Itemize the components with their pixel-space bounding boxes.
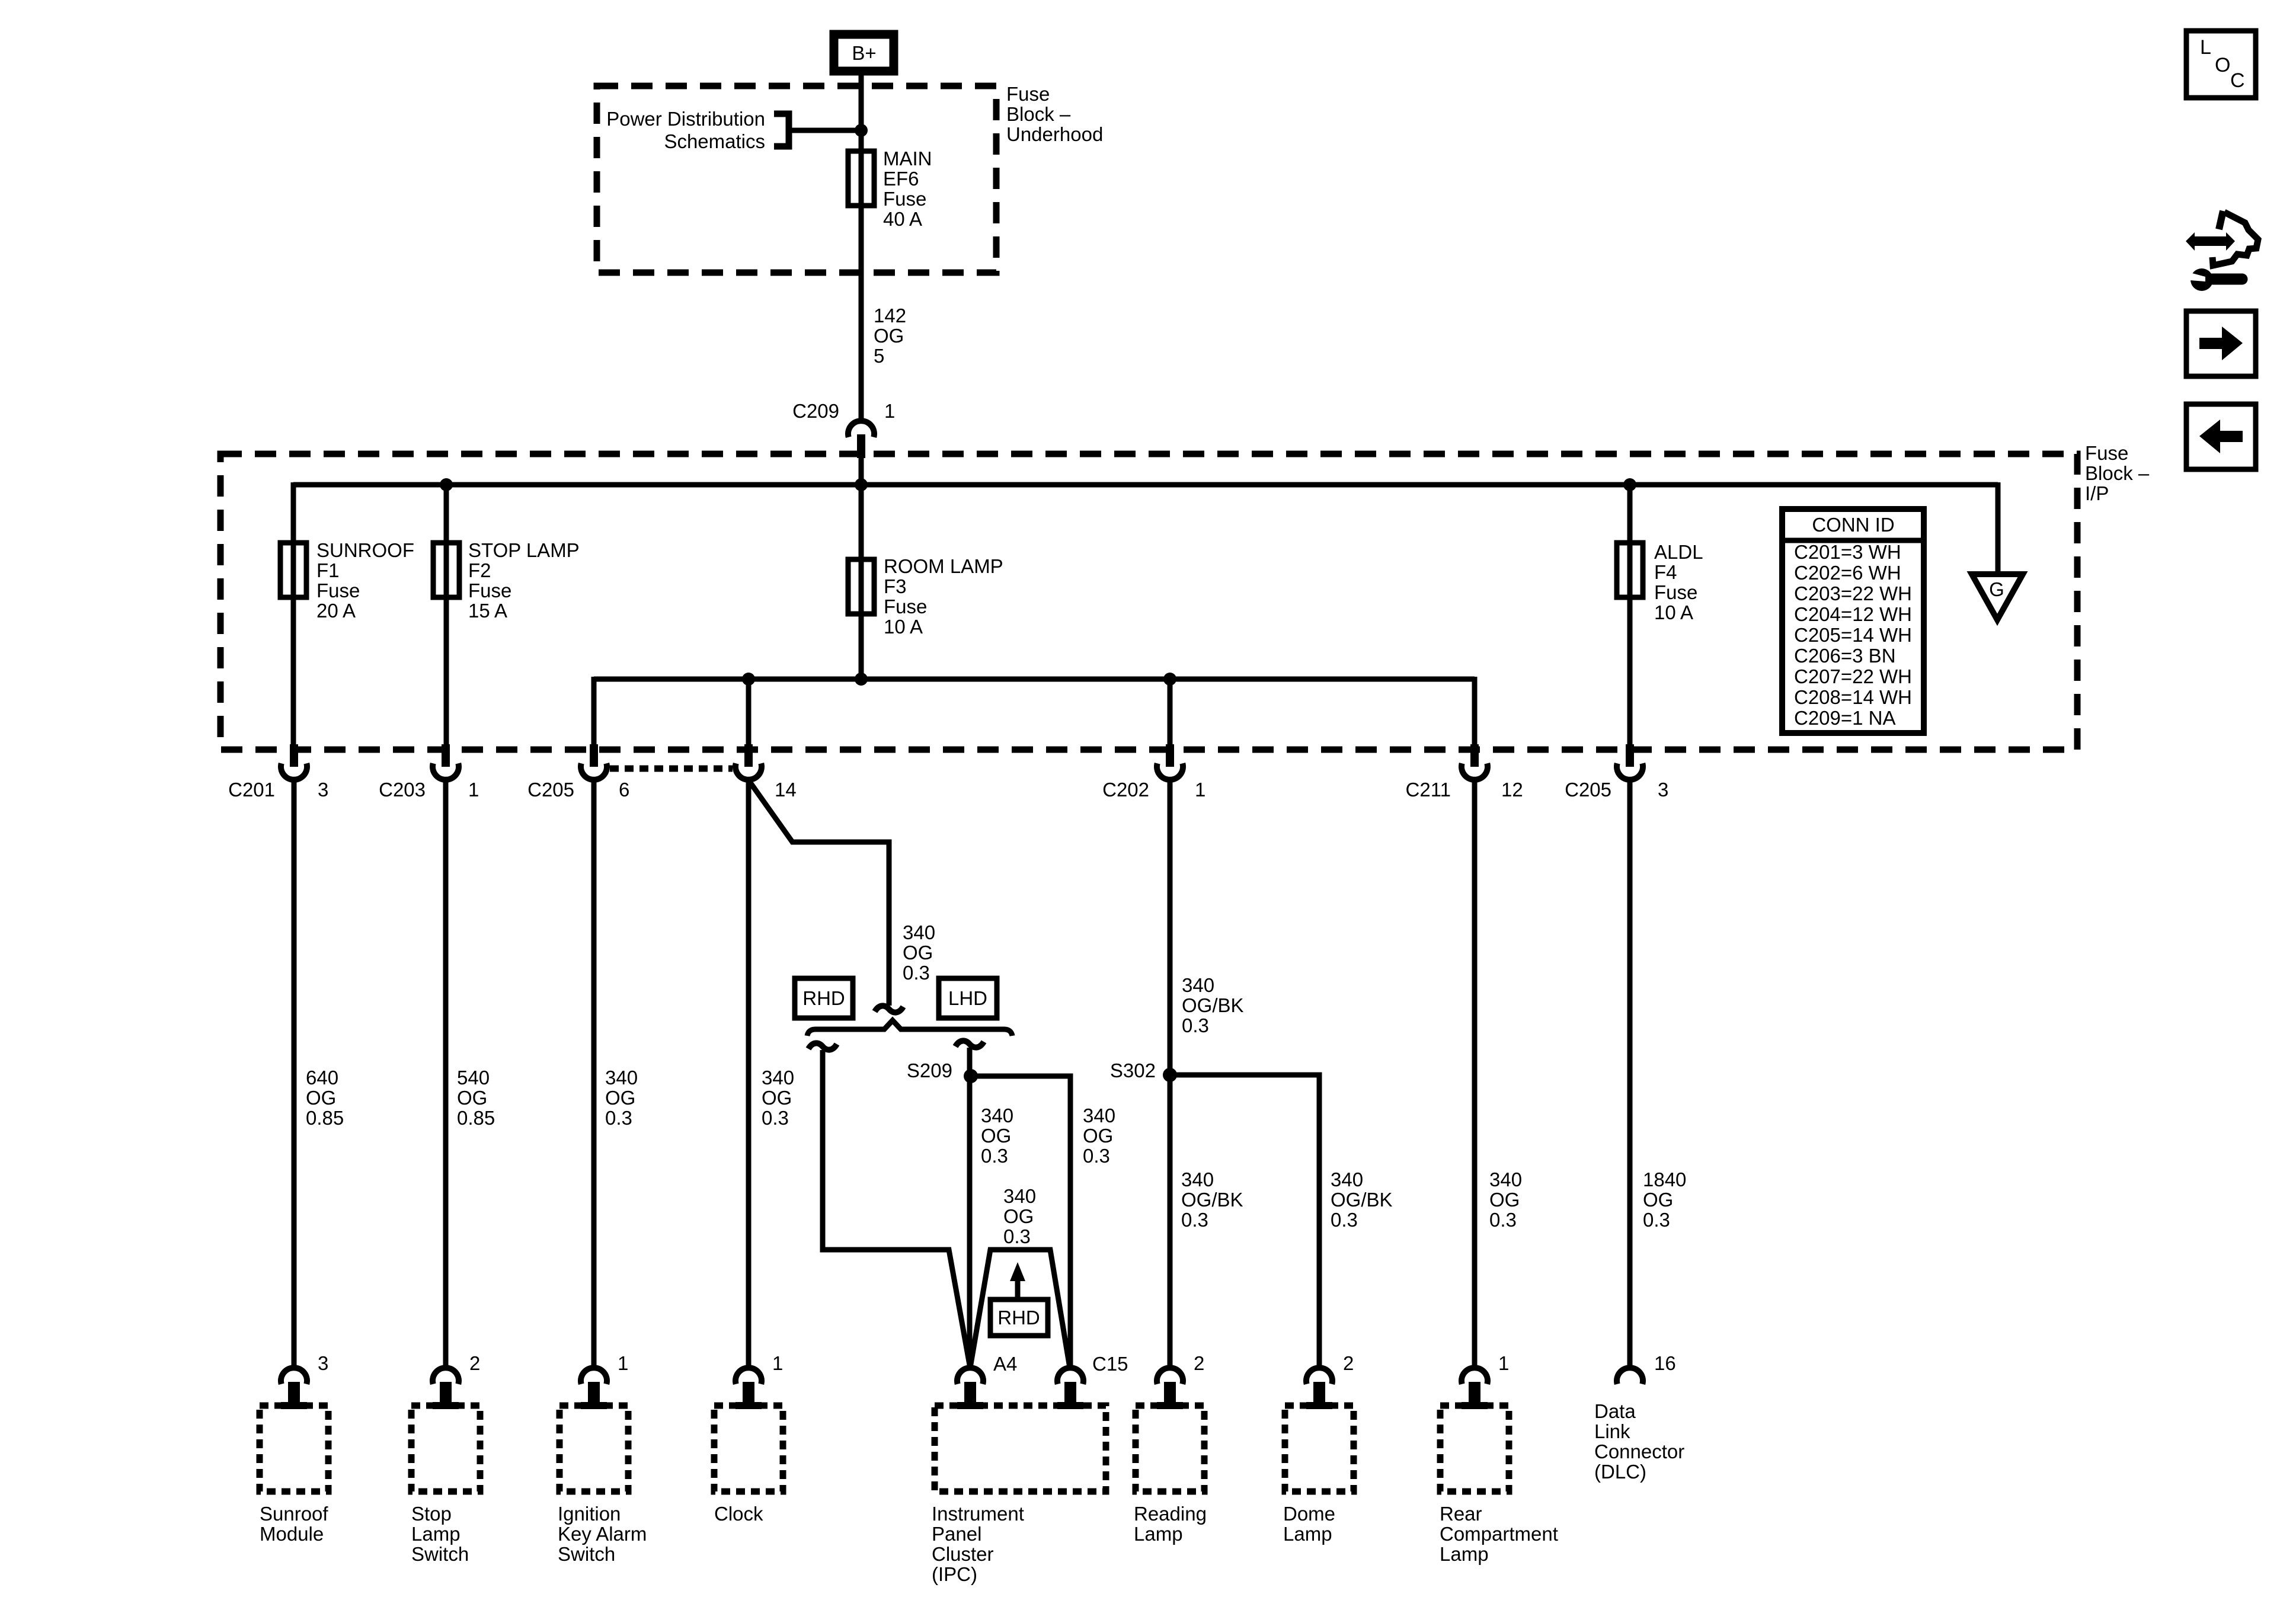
svg-text:OG: OG	[903, 942, 933, 964]
svg-text:0.3: 0.3	[981, 1145, 1008, 1167]
label MAIN EF6 Fuse 40 A	[883, 148, 932, 230]
wire bus2 to C211 pin 12	[1472, 677, 1478, 748]
label ALDL F4 Fuse 10 A	[1654, 541, 1703, 623]
svg-text:0.3: 0.3	[1003, 1225, 1031, 1247]
svg-text:S209: S209	[907, 1060, 952, 1081]
fuse block I/P dashed box	[220, 454, 2077, 750]
svg-text:OG: OG	[457, 1087, 487, 1109]
label 340 OG 0.3 (rear)	[1489, 1169, 1522, 1231]
connector C203 pin 1	[433, 744, 459, 780]
svg-text:STOP LAMP: STOP LAMP	[468, 539, 580, 561]
svg-text:Power Distribution: Power Distribution	[606, 108, 765, 130]
svg-text:C202=6 WH: C202=6 WH	[1794, 562, 1901, 584]
label 340 OG 0.3 (ignition)	[605, 1067, 638, 1129]
break symbol LHD branch	[955, 1041, 984, 1047]
RHD option box	[795, 978, 853, 1018]
svg-text:0.85: 0.85	[457, 1107, 495, 1129]
junction bus2/pin14	[742, 673, 755, 686]
svg-text:Lamp: Lamp	[411, 1523, 461, 1545]
svg-text:Fuse: Fuse	[316, 580, 360, 601]
svg-text:Underhood: Underhood	[1006, 123, 1103, 145]
svg-text:C208=14 WH: C208=14 WH	[1794, 686, 1912, 708]
reading lamp box	[1136, 1406, 1204, 1491]
svg-text:Panel: Panel	[932, 1523, 981, 1545]
svg-text:340: 340	[605, 1067, 638, 1089]
svg-text:Fuse: Fuse	[1006, 83, 1050, 105]
junction on B+ feed	[855, 124, 868, 137]
svg-text:2: 2	[1343, 1352, 1354, 1374]
option split brace	[807, 1020, 1012, 1036]
wire 1840 OG to DLC	[1627, 780, 1633, 1369]
svg-text:340: 340	[762, 1067, 794, 1089]
connector C205 labels	[527, 779, 629, 801]
connector C209 pin 1	[848, 421, 874, 458]
svg-text:Fuse: Fuse	[468, 580, 511, 601]
svg-text:20 A: 20 A	[316, 600, 356, 622]
svg-text:ROOM LAMP: ROOM LAMP	[884, 555, 1003, 577]
wire bus2 to C205 pin 6	[591, 677, 597, 748]
svg-text:OG/BK: OG/BK	[1182, 994, 1244, 1016]
wire bus to fuse F2	[444, 485, 449, 748]
svg-text:C205=14 WH: C205=14 WH	[1794, 624, 1912, 646]
svg-text:C209: C209	[792, 400, 839, 422]
svg-text:(DLC): (DLC)	[1594, 1461, 1646, 1483]
svg-text:OG: OG	[1643, 1189, 1673, 1211]
svg-text:0.3: 0.3	[605, 1107, 632, 1129]
svg-text:0.3: 0.3	[1331, 1209, 1358, 1231]
svg-text:0.3: 0.3	[1489, 1209, 1517, 1231]
connector IPC pin C15	[1057, 1368, 1083, 1409]
svg-text:1: 1	[1195, 779, 1205, 801]
connector C201 labels	[228, 779, 328, 801]
svg-text:C209=1 NA: C209=1 NA	[1794, 707, 1896, 729]
connector C205 pin 14	[736, 744, 762, 780]
svg-text:340: 340	[1181, 1169, 1214, 1190]
connector C201 pin 3	[281, 744, 307, 780]
svg-text:I/P: I/P	[2085, 482, 2109, 504]
CONN ID table	[1782, 509, 1924, 733]
label Data Link Connector (DLC)	[1594, 1400, 1684, 1483]
svg-text:MAIN: MAIN	[883, 148, 932, 169]
svg-text:Fuse: Fuse	[884, 596, 927, 617]
svg-text:RHD: RHD	[802, 987, 845, 1009]
label Sunroof Module	[260, 1503, 328, 1545]
svg-text:0.3: 0.3	[1181, 1209, 1208, 1231]
svg-text:142: 142	[874, 305, 906, 327]
svg-text:0.3: 0.3	[1083, 1145, 1110, 1167]
wire bus to fuse F3	[859, 485, 864, 679]
svg-text:RHD: RHD	[997, 1307, 1040, 1329]
svg-text:340: 340	[1083, 1105, 1115, 1126]
svg-text:3: 3	[318, 779, 328, 801]
svg-text:B+: B+	[852, 42, 876, 64]
svg-text:C204=12 WH: C204=12 WH	[1794, 603, 1912, 625]
label 340 OG 0.3 (branch)	[903, 921, 935, 984]
power bus inside fuse block I/P	[293, 482, 1998, 488]
svg-text:Reading: Reading	[1134, 1503, 1207, 1525]
svg-text:OG: OG	[762, 1087, 792, 1109]
wire 340 OG to ignition key alarm switch	[591, 780, 597, 1369]
svg-text:340: 340	[903, 921, 935, 943]
sunroof module box	[260, 1406, 328, 1491]
label Reading Lamp	[1134, 1503, 1207, 1545]
label STOP LAMP F2 Fuse 15 A	[468, 539, 580, 622]
junction bus2/F3	[855, 673, 868, 686]
svg-text:0.3: 0.3	[903, 962, 930, 984]
svg-text:SUNROOF: SUNROOF	[316, 539, 414, 561]
wire A4 to C15 link (RHD)	[970, 1250, 1070, 1368]
label 340 OG 0.3 (LHD A4)	[981, 1105, 1013, 1167]
clock box	[714, 1406, 783, 1491]
svg-text:O: O	[2215, 54, 2230, 76]
wire RHD branch to IPC A4	[823, 1050, 970, 1368]
svg-text:Dome: Dome	[1283, 1503, 1335, 1525]
svg-text:CONN ID: CONN ID	[1812, 514, 1894, 536]
svg-text:EF6: EF6	[883, 168, 919, 190]
svg-text:10 A: 10 A	[884, 616, 923, 638]
connector sunroof module pin 3	[281, 1368, 307, 1409]
svg-text:2: 2	[1194, 1352, 1204, 1374]
label Ignition Key Alarm Switch	[558, 1503, 647, 1565]
connector C202 pin 1	[1157, 744, 1183, 780]
svg-text:C206=3 BN: C206=3 BN	[1794, 645, 1896, 667]
label 1840 OG 0.3	[1643, 1169, 1686, 1231]
svg-text:C205: C205	[527, 779, 574, 801]
power distribution schematics reference	[606, 108, 789, 152]
svg-text:C202: C202	[1102, 779, 1149, 801]
wire reference bracket to B+ feed	[789, 128, 861, 133]
wire B+ feed down to C209	[859, 75, 864, 422]
svg-text:Stop: Stop	[411, 1503, 452, 1525]
LOC page marker	[2186, 31, 2256, 98]
svg-text:Sunroof: Sunroof	[260, 1503, 328, 1525]
svg-text:A4: A4	[993, 1353, 1017, 1375]
svg-text:F4: F4	[1654, 561, 1677, 583]
connector IPC pin A4	[957, 1368, 983, 1409]
svg-text:OG: OG	[306, 1087, 336, 1109]
previous page arrow icon	[2186, 404, 2256, 469]
svg-text:1: 1	[884, 400, 895, 422]
wire 640 OG to sunroof module	[292, 780, 297, 1369]
svg-text:L: L	[2200, 36, 2211, 59]
connector C202 labels	[1102, 779, 1205, 801]
wire bus2 to C202 pin 1	[1168, 679, 1173, 748]
svg-text:F3: F3	[884, 575, 907, 597]
svg-text:0.3: 0.3	[762, 1107, 789, 1129]
fuse EF6 MAIN 40A	[848, 151, 874, 206]
svg-text:Lamp: Lamp	[1134, 1523, 1183, 1545]
label Clock	[714, 1503, 763, 1525]
label SUNROOF F1 Fuse 20 A	[316, 539, 414, 622]
svg-text:F1: F1	[316, 559, 340, 581]
svg-text:Data: Data	[1594, 1400, 1636, 1422]
svg-text:F2: F2	[468, 559, 491, 581]
label Stop Lamp Switch	[411, 1503, 469, 1565]
LHD option box	[939, 978, 997, 1018]
distribution bus from room lamp fuse	[594, 677, 1475, 682]
wire 540 OG to stop lamp switch	[443, 780, 449, 1369]
RHD marker box	[990, 1299, 1048, 1336]
svg-text:LHD: LHD	[948, 987, 987, 1009]
svg-text:C15: C15	[1092, 1353, 1128, 1375]
svg-text:Connector: Connector	[1594, 1441, 1684, 1462]
label 340 OG 0.3 (clock)	[762, 1067, 794, 1129]
svg-text:1: 1	[468, 779, 479, 801]
svg-text:S302: S302	[1110, 1060, 1156, 1081]
dome lamp box	[1285, 1406, 1354, 1491]
svg-text:Module: Module	[260, 1523, 324, 1545]
label Instrument Panel Cluster (IPC)	[932, 1503, 1024, 1585]
svg-text:Cluster: Cluster	[932, 1543, 994, 1565]
svg-text:G: G	[1989, 578, 2004, 600]
break symbol on branch wire	[875, 1006, 903, 1012]
svg-text:2: 2	[469, 1352, 480, 1374]
svg-text:C207=22 WH: C207=22 WH	[1794, 665, 1912, 687]
wire C209 into power bus	[859, 456, 864, 485]
wire bus to fuse F1	[291, 482, 296, 748]
fuse F1 SUNROOF 20A	[280, 543, 306, 597]
svg-text:C201: C201	[228, 779, 275, 801]
svg-text:Clock: Clock	[714, 1503, 763, 1525]
label ROOM LAMP F3 Fuse 10 A	[884, 555, 1003, 638]
svg-text:5: 5	[874, 345, 884, 367]
svg-text:14: 14	[775, 779, 797, 801]
svg-text:40 A: 40 A	[883, 208, 922, 230]
label 340 OG 0.3 (C15)	[1083, 1105, 1115, 1167]
stop lamp switch box	[411, 1406, 480, 1491]
label 340 OG/BK 0.3 (reading)	[1181, 1169, 1243, 1231]
break symbol RHD branch	[808, 1043, 837, 1049]
svg-text:1840: 1840	[1643, 1169, 1686, 1190]
splice S302	[1163, 1068, 1177, 1082]
label 640 OG 0.85	[306, 1067, 344, 1129]
svg-text:OG: OG	[1489, 1189, 1520, 1211]
svg-text:Switch: Switch	[411, 1543, 469, 1565]
junction bus/F3 feed	[855, 478, 868, 491]
connector C211 pin 12	[1462, 744, 1488, 780]
svg-text:340: 340	[1489, 1169, 1522, 1190]
svg-text:OG: OG	[1003, 1205, 1034, 1227]
instrument panel cluster box	[935, 1406, 1106, 1491]
junction bus/F2	[440, 478, 453, 491]
svg-text:0.85: 0.85	[306, 1107, 344, 1129]
battery positive B+ box	[834, 34, 894, 71]
wire bus to ground	[1996, 482, 2001, 576]
wire bus to fuse F4	[1627, 485, 1633, 748]
svg-text:Block –: Block –	[2085, 462, 2150, 484]
svg-text:Fuse: Fuse	[883, 188, 926, 210]
connector DLC pin 16	[1617, 1368, 1643, 1384]
svg-text:Compartment: Compartment	[1440, 1523, 1558, 1545]
wire 340 OG/BK C202 to S302	[1168, 780, 1173, 1369]
svg-text:OG: OG	[605, 1087, 635, 1109]
wire 340 OG to clock	[746, 780, 752, 1369]
svg-text:1: 1	[1498, 1352, 1509, 1374]
svg-text:C203=22 WH: C203=22 WH	[1794, 582, 1912, 604]
svg-text:1: 1	[618, 1352, 628, 1374]
svg-text:12: 12	[1501, 779, 1523, 801]
vehicle service icon	[2186, 211, 2258, 291]
svg-text:340: 340	[1182, 974, 1214, 996]
label Dome Lamp	[1283, 1503, 1335, 1545]
svg-text:10 A: 10 A	[1654, 601, 1693, 623]
connector C205 (right) labels	[1565, 779, 1668, 801]
svg-text:Block –: Block –	[1006, 103, 1071, 125]
junction bus2/C202	[1163, 673, 1176, 686]
svg-text:0.3: 0.3	[1643, 1209, 1670, 1231]
label 540 OG 0.85	[457, 1067, 495, 1129]
svg-text:OG: OG	[1083, 1125, 1113, 1147]
fuse block underhood dashed box	[597, 86, 996, 273]
svg-text:C203: C203	[379, 779, 426, 801]
wire branch from pin 14 to RHD/LHD split	[749, 781, 889, 1006]
label 340 OG/BK 0.3 (dome)	[1331, 1169, 1393, 1231]
svg-text:Schematics: Schematics	[664, 130, 765, 152]
svg-text:6: 6	[619, 779, 629, 801]
svg-text:OG/BK: OG/BK	[1331, 1189, 1393, 1211]
CONN ID table rows	[1794, 541, 1912, 729]
splice S209	[964, 1069, 978, 1083]
svg-text:340: 340	[981, 1105, 1013, 1126]
connector C209 labels	[792, 400, 895, 422]
wire 340 OG to rear compartment lamp	[1472, 780, 1478, 1369]
RHD applicability arrow	[1010, 1262, 1025, 1301]
connector reading lamp pin 2	[1157, 1368, 1183, 1409]
svg-text:16: 16	[1654, 1352, 1676, 1374]
svg-text:Fuse: Fuse	[1654, 581, 1697, 603]
fuse F3 ROOM LAMP 10A	[848, 559, 874, 614]
svg-text:3: 3	[1658, 779, 1668, 801]
svg-text:OG: OG	[874, 325, 904, 347]
svg-text:1: 1	[772, 1352, 783, 1374]
svg-text:OG/BK: OG/BK	[1181, 1189, 1243, 1211]
svg-text:C211: C211	[1406, 779, 1451, 801]
wire S302 to dome lamp	[1170, 1075, 1319, 1369]
svg-text:340: 340	[1003, 1185, 1036, 1207]
label fuse block underhood	[1006, 83, 1103, 145]
svg-text:OG: OG	[981, 1125, 1011, 1147]
svg-text:C201=3 WH: C201=3 WH	[1794, 541, 1901, 563]
svg-text:640: 640	[306, 1067, 338, 1089]
svg-text:15 A: 15 A	[468, 600, 507, 622]
connector C203 labels	[379, 779, 479, 801]
wire S209 to IPC C15	[971, 1076, 1070, 1369]
rear compartment lamp box	[1440, 1406, 1509, 1491]
fuse F4 ALDL 10A	[1617, 543, 1643, 597]
svg-text:Switch: Switch	[558, 1543, 615, 1565]
dashed link between C205 pins 6 and 14	[610, 766, 733, 772]
svg-text:540: 540	[457, 1067, 490, 1089]
connector C205 pin 3	[1617, 744, 1643, 780]
label 340 OG 0.3 (A4-C15 link)	[1003, 1185, 1036, 1247]
ignition key alarm switch box	[559, 1406, 628, 1491]
connector C205 pin 6	[581, 744, 607, 780]
label fuse block I/P	[2085, 442, 2150, 504]
svg-text:Fuse: Fuse	[2085, 442, 2128, 464]
wire label 142 OG 5	[874, 305, 906, 367]
svg-text:Ignition: Ignition	[558, 1503, 621, 1525]
connector clock pin 1	[736, 1368, 762, 1409]
connector stop lamp switch pin 2	[433, 1368, 459, 1409]
svg-text:Lamp: Lamp	[1440, 1543, 1489, 1565]
svg-text:ALDL: ALDL	[1654, 541, 1703, 563]
connector C211 labels	[1406, 779, 1523, 801]
svg-text:Instrument: Instrument	[932, 1503, 1024, 1525]
next page arrow icon	[2186, 311, 2256, 376]
svg-text:C: C	[2230, 69, 2245, 92]
connector ignition key alarm switch pin 1	[581, 1368, 607, 1409]
label 340 OG/BK 0.3 (upper)	[1182, 974, 1244, 1036]
svg-text:Link: Link	[1594, 1420, 1630, 1442]
connector rear compartment lamp pin 1	[1462, 1368, 1488, 1409]
label Rear Compartment Lamp	[1440, 1503, 1558, 1565]
fuse F2 STOP LAMP 15A	[433, 543, 459, 597]
svg-text:C205: C205	[1565, 779, 1611, 801]
svg-text:0.3: 0.3	[1182, 1014, 1209, 1036]
junction bus/F4	[1623, 478, 1636, 491]
wire bus2 to pin 14	[746, 679, 752, 748]
svg-text:3: 3	[318, 1352, 328, 1374]
svg-text:Lamp: Lamp	[1283, 1523, 1332, 1545]
svg-text:(IPC): (IPC)	[932, 1563, 977, 1585]
ground symbol G	[1972, 574, 2023, 620]
wire LHD branch to IPC A4	[967, 1048, 973, 1369]
svg-text:Rear: Rear	[1440, 1503, 1482, 1525]
svg-text:340: 340	[1331, 1169, 1363, 1190]
connector dome lamp pin 2	[1306, 1368, 1332, 1409]
svg-text:Key Alarm: Key Alarm	[558, 1523, 647, 1545]
